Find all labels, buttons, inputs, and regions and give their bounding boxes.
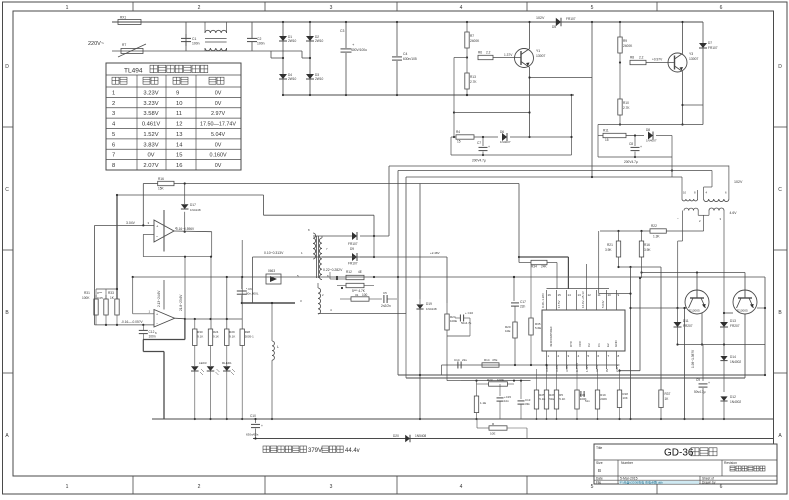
title block Date row — [596, 477, 714, 481]
table grid TL494 no-load working voltage — [106, 63, 241, 170]
svg-text:R16: R16 — [158, 177, 164, 181]
capacitor C1 X-cap — [181, 22, 200, 51]
resistor R31 100K — [82, 291, 98, 325]
svg-text:FR107: FR107 — [348, 242, 358, 246]
wire heavy jog to x164 — [143, 340, 164, 420]
svg-text:51n: 51n — [585, 399, 590, 403]
wire feedback y183 — [174, 184, 520, 263]
svg-text:12: 12 — [588, 293, 592, 297]
svg-text:0V: 0V — [215, 101, 222, 107]
transformer T2 lower winding — [318, 283, 324, 314]
capacitor C13 33n — [518, 380, 531, 420]
diode D12 1N4002 — [720, 395, 741, 420]
svg-text:200V4.7µ: 200V4.7µ — [472, 159, 486, 163]
svg-text:15: 15 — [457, 140, 461, 144]
title block Revision — [724, 461, 765, 471]
wire y365 row — [442, 364, 620, 375]
svg-text:FR207: FR207 — [683, 324, 693, 328]
svg-text:14: 14 — [568, 293, 572, 297]
svg-text:0V: 0V — [147, 153, 154, 159]
svg-text:9: 9 — [176, 90, 179, 96]
resistor R34 24K — [519, 260, 557, 288]
IC U1 top pins 16-9 — [547, 290, 620, 310]
svg-text:C1: C1 — [597, 343, 601, 347]
svg-text:1.3K: 1.3K — [653, 235, 660, 239]
svg-text:E13005: E13005 — [737, 309, 748, 313]
IC U1 TL494 body — [542, 310, 625, 351]
svg-text:R22: R22 — [651, 224, 657, 228]
svg-text:220V~: 220V~ — [88, 41, 104, 47]
wire DC minus rail — [282, 94, 574, 96]
resistor R6 2.2 — [478, 51, 493, 60]
svg-text:3.83V: 3.83V — [143, 142, 158, 148]
capacitor C5 2n2 — [381, 291, 397, 308]
LED RLED1 — [222, 346, 235, 421]
wire vertical x641 upper — [641, 267, 643, 278]
svg-text:+: + — [488, 145, 490, 149]
diode D18 1N5408 on bus — [393, 434, 426, 442]
svg-text:4: 4 — [460, 484, 463, 490]
svg-text:C7: C7 — [477, 141, 481, 145]
wire heavy y375 — [398, 374, 766, 376]
svg-text:2.07V: 2.07V — [143, 163, 158, 169]
wire R22 row — [600, 230, 704, 232]
svg-text:C1: C1 — [192, 37, 196, 41]
svg-text:494COMP/REF: 494COMP/REF — [549, 326, 553, 347]
label voltage 1.98-1.38V — [691, 349, 695, 368]
svg-text:1.52V: 1.52V — [585, 364, 589, 372]
wire long bus y277 — [132, 276, 765, 278]
svg-text:3.9K: 3.9K — [644, 248, 651, 252]
svg-text:5: 5 — [112, 132, 115, 138]
svg-text:5.04V: 5.04V — [211, 132, 225, 138]
svg-text:Number: Number — [621, 461, 634, 465]
wire pin12 riser — [586, 264, 588, 290]
svg-text:11: 11 — [598, 293, 601, 297]
svg-text:R6: R6 — [478, 51, 482, 55]
diode D1 1N4007 — [279, 35, 297, 43]
wire U2B minus input — [95, 324, 154, 326]
svg-text:C2: C2 — [587, 343, 591, 347]
svg-text:D8: D8 — [646, 128, 650, 132]
svg-text:17.50—17.74V: 17.50—17.74V — [200, 122, 236, 128]
svg-text:400V/100u: 400V/100u — [351, 48, 367, 52]
wire emitter tap — [570, 94, 572, 155]
svg-text:16.9V~25.1V: 16.9V~25.1V — [581, 291, 585, 308]
table data rows pin voltages — [112, 90, 236, 169]
title text GD-36 charger — [664, 448, 717, 459]
node base bias Y1 — [466, 56, 468, 58]
optocoupler IC2 0663 — [266, 269, 299, 284]
wire vertical x684 — [683, 307, 685, 420]
svg-text:1: 1 — [66, 5, 69, 11]
svg-text:R9: R9 — [623, 39, 627, 43]
svg-text:D5: D5 — [552, 25, 556, 29]
svg-text:13007: 13007 — [689, 57, 699, 61]
svg-text:RLED1: RLED1 — [222, 361, 232, 365]
op-amp U2B output — [175, 318, 186, 320]
svg-text:50v4.7µ: 50v4.7µ — [461, 321, 472, 325]
svg-text:11: 11 — [176, 111, 182, 117]
svg-text:379V: 379V — [308, 448, 322, 454]
title block Number — [621, 461, 634, 465]
svg-text:1.37V: 1.37V — [504, 53, 513, 57]
zone tick marks top and bottom — [133, 2, 657, 494]
resistor R10 2.7K — [618, 63, 631, 126]
svg-text:−: − — [677, 217, 679, 221]
wire R15 left drop — [142, 184, 144, 226]
svg-text:5005-1: 5005-1 — [245, 335, 254, 339]
svg-text:R13: R13 — [470, 75, 476, 79]
resistor R24b 100E — [445, 303, 457, 336]
svg-text:5.1K: 5.1K — [559, 397, 565, 401]
svg-text:1N4148: 1N4148 — [426, 307, 437, 311]
svg-text:C2: C2 — [257, 37, 261, 41]
wire snubber B bottom — [598, 136, 673, 178]
svg-text:File: File — [596, 481, 601, 485]
IC U1 internal pin names — [549, 326, 618, 347]
resistor R11 15 — [598, 129, 644, 143]
transistor Q1 E13005 — [685, 290, 709, 314]
svg-text:Size: Size — [596, 461, 603, 465]
svg-text:17.5V: 17.5V — [557, 300, 561, 308]
wire x185 drop to U2B output — [184, 256, 186, 319]
wire Y3 emitter down — [681, 72, 683, 126]
wire y380 row — [447, 336, 531, 382]
svg-text:Title: Title — [596, 446, 602, 450]
wire R28 bottom — [241, 346, 243, 421]
svg-text:RT: RT — [122, 43, 126, 47]
svg-text:15: 15 — [558, 293, 562, 297]
wire U2B heavy output drop — [184, 319, 186, 340]
svg-text:Drawn by: Drawn by — [702, 481, 716, 485]
table title text TL494 (CJK) — [124, 65, 208, 74]
transistor Y1 13007 — [515, 49, 546, 68]
capacitor C3 bulk electrolytic 450V — [340, 21, 367, 95]
zone tick marks left and right — [3, 127, 788, 373]
wire ground bus y419 — [152, 418, 773, 420]
wire Y1 bootstrap bottom — [454, 111, 531, 113]
svg-text:D11: D11 — [683, 319, 689, 323]
svg-text:C10: C10 — [250, 414, 256, 418]
wire Y1 emitter tap y77 — [528, 76, 592, 78]
svg-text:0V: 0V — [215, 142, 222, 148]
wire U2A plus input — [95, 224, 154, 226]
svg-text:47E: 47E — [492, 358, 497, 362]
svg-text:0.05: 0.05 — [97, 296, 103, 300]
resistor R27 1.1E — [474, 381, 486, 421]
wire bridge right column — [309, 21, 311, 95]
svg-text:15: 15 — [605, 138, 609, 142]
op-amp U2A — [148, 220, 178, 242]
svg-text:2.13~24.6V: 2.13~24.6V — [157, 290, 161, 307]
svg-text:2400K: 2400K — [623, 44, 633, 48]
svg-text:1N4007: 1N4007 — [500, 140, 511, 144]
capacitor C16 50v4.7u — [455, 311, 473, 336]
capacitor C15 10n — [497, 384, 512, 419]
svg-text:+: + — [156, 313, 158, 317]
svg-text:C12: C12 — [149, 330, 155, 334]
transformer T2 core — [317, 236, 319, 278]
svg-text:+2.48V: +2.48V — [430, 251, 440, 255]
svg-text:D14: D14 — [730, 355, 736, 359]
svg-text:FR107: FR107 — [348, 262, 358, 266]
wire AC line1 top bus — [112, 21, 703, 23]
svg-text:R16: R16 — [644, 243, 650, 247]
svg-text:16: 16 — [176, 163, 182, 169]
svg-text:D19: D19 — [426, 302, 432, 306]
svg-text:0V: 0V — [605, 368, 609, 372]
svg-text:16: 16 — [548, 293, 552, 297]
svg-text:R34: R34 — [531, 265, 537, 269]
svg-text:3.04V: 3.04V — [126, 221, 136, 225]
svg-text:9.1K: 9.1K — [213, 335, 219, 339]
resistor R40 100 — [340, 293, 382, 301]
wire output row y319 — [185, 318, 242, 320]
wire ladder column x242 — [241, 240, 243, 329]
diode D19 1N4148 — [416, 299, 436, 420]
svg-text:D17: D17 — [190, 203, 196, 207]
svg-text:D: D — [778, 64, 782, 70]
wire Y1 collector to bus — [528, 21, 530, 49]
common-mode choke T0 — [205, 22, 227, 51]
svg-text:240K: 240K — [600, 397, 607, 401]
svg-text:4: 4 — [460, 5, 463, 11]
wire trio top tie — [96, 288, 118, 299]
svg-text:R12: R12 — [346, 270, 352, 274]
svg-text:2: 2 — [198, 5, 201, 11]
svg-text:Y3: Y3 — [689, 52, 693, 56]
wire U2A feedback loop — [143, 232, 211, 257]
wire heavy rail x117 — [116, 194, 118, 299]
wire heavy y257 — [519, 257, 568, 289]
resistor R37 1K — [659, 390, 671, 420]
label 0.22-0.282V — [323, 268, 343, 278]
capacitor C4 630n — [392, 21, 417, 95]
title block outline — [594, 444, 777, 484]
resistor R15 15K — [143, 177, 174, 191]
resistor R18 10K — [617, 369, 628, 420]
svg-text:9.1K: 9.1K — [229, 335, 235, 339]
svg-text:GND: GND — [614, 340, 618, 348]
transformer T1 primary winding B — [704, 187, 729, 202]
svg-text:200V4.7µ: 200V4.7µ — [624, 160, 638, 164]
wire Q1 emitter — [701, 313, 703, 346]
wire ladder column x211 — [210, 256, 212, 329]
wire bridge left mid stub — [271, 51, 284, 59]
zone letters A-D left and right — [5, 64, 782, 439]
svg-text:102V: 102V — [734, 180, 743, 184]
diode D5 FR107 on bus — [552, 17, 576, 29]
svg-text:FR107: FR107 — [566, 17, 576, 21]
svg-text:15K: 15K — [158, 187, 165, 191]
svg-text:51E: 51E — [549, 397, 554, 401]
resistor R20b 10E — [505, 322, 517, 365]
svg-text:1N5408: 1N5408 — [415, 434, 426, 438]
svg-text:5: 5 — [591, 5, 594, 11]
svg-text:0***: 0*** — [97, 291, 103, 295]
svg-text:2.97V: 2.97V — [211, 111, 225, 117]
svg-text:B: B — [598, 468, 601, 473]
resistor R23 100E — [477, 378, 515, 386]
svg-text:1.1E: 1.1E — [480, 401, 486, 405]
svg-text:1N4002: 1N4002 — [730, 400, 741, 404]
wire long vertical x630 — [629, 267, 631, 420]
diode D13 FR207 — [720, 315, 740, 345]
svg-text:+: + — [708, 381, 710, 385]
svg-text:14: 14 — [176, 142, 183, 148]
svg-text:D12: D12 — [730, 395, 736, 399]
svg-text:1.52V: 1.52V — [143, 132, 158, 138]
label 102V at T1 — [734, 180, 743, 184]
wire U2A output — [174, 227, 212, 232]
svg-text:0.461V: 0.461V — [142, 122, 161, 128]
svg-text:FR207: FR207 — [730, 324, 740, 328]
svg-text:2W10: 2W10 — [288, 39, 297, 43]
svg-text:0.22~0.282V: 0.22~0.282V — [323, 268, 343, 272]
capacitor C18 51n — [581, 391, 590, 403]
wire Q2 base row y313 — [723, 312, 733, 314]
svg-text:R8: R8 — [630, 56, 634, 60]
svg-text:7: 7 — [112, 153, 115, 159]
diode D17 1N4148 — [181, 182, 201, 232]
thermistor RT1 on AC line2 — [118, 43, 146, 57]
transformer T2 mid winding — [319, 236, 328, 280]
wire heavy y339 — [143, 339, 185, 341]
svg-text:R11: R11 — [603, 129, 609, 133]
title block label Title — [596, 446, 602, 450]
IC U1 pin voltage labels top — [541, 291, 605, 308]
svg-text:3.58V: 3.58V — [143, 111, 158, 117]
wire Y3 collector to bus — [681, 21, 683, 54]
wire IC top pin box — [547, 288, 610, 290]
svg-text:100E: 100E — [497, 378, 504, 382]
svg-text:13: 13 — [176, 132, 182, 138]
diode D10 FR107 — [322, 236, 375, 266]
svg-text:5.04V: 5.04V — [601, 300, 605, 308]
svg-text:21.8~23.6V: 21.8~23.6V — [179, 294, 183, 311]
svg-text:R24: R24 — [213, 330, 219, 334]
node base bias Y3 — [619, 61, 621, 63]
diode D14 1N4002 — [720, 345, 741, 393]
wire y267 row — [617, 266, 661, 268]
svg-text:10: 10 — [608, 293, 612, 297]
IC U1 pin voltage labels bottom — [545, 363, 619, 372]
wire R6 to Y1 base — [493, 53, 521, 58]
svg-text:C3: C3 — [340, 29, 344, 33]
wire output bus y438 — [253, 438, 773, 440]
IC U1 bottom pins 1-8 — [547, 351, 620, 369]
wire crossing bar x164 — [163, 210, 165, 252]
diode D6 1N4007 — [500, 130, 573, 144]
svg-text:-0.16—-0.05?V: -0.16—-0.05?V — [121, 320, 143, 324]
diode D8 1N4007 — [646, 128, 672, 143]
svg-text:D9: D9 — [350, 247, 354, 251]
svg-text:+: + — [640, 145, 642, 149]
capacitor C17 22n — [511, 276, 526, 322]
transistor Y3 13007 — [668, 52, 699, 72]
resistor R14 47E — [482, 358, 499, 367]
svg-text:R23: R23 — [487, 378, 493, 382]
wire Y1 emitter down — [528, 67, 530, 138]
svg-text:630n/105: 630n/105 — [403, 57, 417, 61]
svg-text:2400K: 2400K — [470, 39, 480, 43]
wire emitter rail y344 — [676, 343, 765, 345]
wire heavy y378 — [406, 314, 745, 378]
capacitor C2 X-cap — [247, 22, 265, 51]
svg-text:0.48~1.28V: 0.48~1.28V — [541, 293, 545, 308]
wire T1 sec left pin down — [678, 211, 683, 309]
svg-text:10E: 10E — [490, 432, 495, 436]
svg-text:FR107: FR107 — [708, 46, 718, 50]
wire x598 drop to pin11 — [598, 231, 600, 294]
svg-text:0V: 0V — [215, 90, 222, 96]
title block Size B — [596, 461, 603, 473]
svg-text:24K: 24K — [541, 265, 548, 269]
diode D11 FR207 — [674, 308, 693, 345]
svg-text:TL494: TL494 — [124, 68, 143, 75]
resistor R13 2.7K — [465, 58, 478, 97]
wire Q2 collector — [744, 273, 746, 291]
svg-text:C9: C9 — [696, 378, 700, 382]
wire x640 drop — [639, 277, 641, 371]
resistor R16b 3.9K — [639, 231, 651, 267]
svg-text:0.16~0.596V: 0.16~0.596V — [176, 227, 195, 231]
wire x420 long drop — [419, 184, 421, 300]
svg-text:10: 10 — [176, 101, 182, 107]
svg-text:2.7K: 2.7K — [623, 106, 630, 110]
label 4.7K — [352, 289, 366, 293]
svg-text:R10: R10 — [623, 101, 629, 105]
svg-text:5.6E: 5.6E — [535, 326, 541, 330]
resistor R33 1K — [108, 291, 119, 325]
svg-text:3.23V: 3.23V — [143, 90, 158, 96]
svg-text:6: 6 — [720, 484, 723, 490]
svg-text:4.6V: 4.6V — [730, 211, 738, 215]
wire R8 to Y3 base — [646, 58, 675, 63]
resistor R4 15 — [451, 130, 498, 144]
svg-text:5: 5 — [591, 484, 594, 490]
resistor R12b — [337, 283, 374, 287]
transformer T1 primary winding A — [682, 190, 698, 201]
fuse RX1 on AC line1 — [118, 16, 141, 25]
svg-text:3.23V: 3.23V — [555, 364, 559, 372]
svg-text:C4: C4 — [403, 52, 407, 56]
svg-text:50n,800L: 50n,800L — [246, 292, 259, 296]
svg-text:100n: 100n — [257, 42, 265, 46]
resistor R21 3.9K — [605, 231, 621, 267]
wire collector top rail y272 — [640, 271, 745, 273]
svg-text:DTC: DTC — [569, 340, 573, 347]
capacitor C6 50n800 — [237, 277, 259, 303]
resistor row below IC R25 R26 R5 R30 R19 R18 — [534, 369, 607, 420]
svg-text:C: C — [778, 187, 782, 193]
inductor L1 — [271, 302, 279, 420]
resistor ladder R30 R24 R29 R28 — [193, 319, 254, 346]
resistor R35 5.6E — [529, 265, 541, 365]
svg-text:3: 3 — [330, 5, 333, 11]
svg-text:1N4148: 1N4148 — [190, 208, 201, 212]
svg-text:R30: R30 — [197, 330, 203, 334]
svg-text:Y1: Y1 — [536, 49, 540, 53]
svg-text:C17: C17 — [520, 300, 526, 304]
svg-text:L: L — [277, 345, 279, 349]
svg-text:2W10: 2W10 — [288, 77, 297, 81]
resistor R8 2.2 — [630, 56, 646, 65]
svg-text:R31: R31 — [84, 291, 90, 295]
svg-text:R7: R7 — [470, 34, 474, 38]
svg-text:−: − — [156, 322, 158, 326]
